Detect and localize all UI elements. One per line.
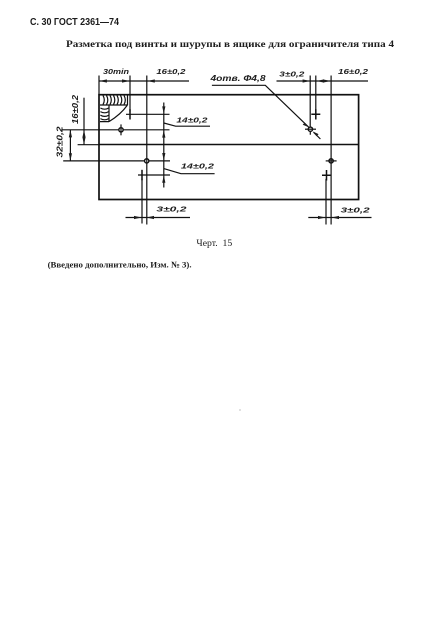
hole C-right [326, 159, 337, 163]
bottom-right dimension 3±0,2 [308, 205, 371, 219]
figure title [66, 39, 394, 49]
svg-text:16±0,2: 16±0,2 [338, 67, 369, 76]
long extension line x=331.1 [330, 76, 332, 225]
hole B-left [119, 124, 123, 135]
svg-text:3±0,2: 3±0,2 [156, 205, 187, 214]
faint speck [239, 409, 241, 411]
figure caption [196, 239, 232, 249]
note text [48, 259, 192, 269]
svg-text:4отв. Ф4,8: 4отв. Ф4,8 [209, 73, 265, 83]
long extension line x=146.8 [146, 76, 148, 225]
svg-text:16±0,2: 16±0,2 [156, 67, 186, 76]
hole C-left [145, 159, 149, 163]
cross D-right [322, 170, 331, 181]
cross A-left [129, 109, 131, 119]
top dimension line right piece [277, 79, 369, 82]
svg-text:16±0,2: 16±0,2 [70, 95, 80, 124]
cross D-left [141, 170, 143, 181]
lower 14±0,2 dimension [162, 153, 215, 183]
svg-text:30min: 30min [103, 67, 129, 76]
svg-text:32±0,2: 32±0,2 [55, 126, 65, 157]
extension line x=130 (top-left cross) [129, 76, 131, 112]
dim text 16±0,2 (top right) [338, 67, 369, 76]
left vertical dimension 32±0,2 [55, 126, 73, 161]
svg-text:3±0,2: 3±0,2 [279, 70, 305, 79]
extension line bottom-left cross [141, 179, 143, 224]
hole B-right [305, 127, 316, 131]
svg-text:Черт. 15: Черт. 15 [196, 239, 232, 249]
dim text 3±0,2 (top) [279, 70, 305, 79]
dim text 16±0,2 (top left) [156, 67, 186, 76]
top dimension line left piece [99, 79, 189, 82]
svg-text:(Введено дополнительно, Изм. №: (Введено дополнительно, Изм. № 3). [48, 259, 192, 269]
bottom-left dimension 3±0,2 [126, 205, 191, 220]
left vertical dimension 16±0,2 [70, 95, 99, 145]
box outline [99, 95, 359, 200]
corner cleat detail (wood grain) [100, 95, 128, 122]
dim text 30min [103, 67, 129, 76]
row line C (through left lower hole) [63, 160, 170, 162]
svg-text:3±0,2: 3±0,2 [341, 205, 371, 214]
extension line bottom-right cross [325, 179, 327, 225]
svg-text:14±0,2: 14±0,2 [176, 115, 208, 124]
svg-text:С. 30 ГОСТ 2361—74: С. 30 ГОСТ 2361—74 [30, 17, 119, 28]
hole label 4отв. Ф4,8 with leader [209, 73, 320, 139]
extension line x=315.7 (top-right cross) [315, 76, 317, 111]
svg-text:Разметка под винты и шурупы в: Разметка под винты и шурупы в ящике для … [66, 39, 394, 49]
extension line x=310.2 (top-right hole) [309, 76, 311, 135]
page header text [30, 17, 119, 28]
cross A-right [311, 109, 320, 119]
row line D (through bottom crosses) [138, 174, 170, 176]
extension line: box left edge above box [98, 76, 100, 95]
row line A (through top-left cross) [126, 113, 170, 115]
row line B (through left hole) [61, 129, 169, 131]
svg-text:14±0,2: 14±0,2 [181, 162, 215, 171]
upper 14±0,2 dimension (vertical, at x=163.8) [162, 103, 210, 188]
box middle wall line [99, 144, 359, 146]
